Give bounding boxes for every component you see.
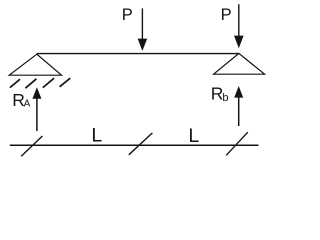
- dimension base line: [10, 144, 259, 146]
- beam: [37, 53, 239, 55]
- dimension slash right: [226, 132, 248, 155]
- dimension slash left: [21, 136, 42, 156]
- svg-text:b: b: [222, 92, 228, 104]
- hatch dash 4 under support A: [60, 78, 71, 87]
- load arrow P1 (midspan): [138, 8, 148, 51]
- svg-text:A: A: [24, 99, 31, 110]
- svg-text:P: P: [122, 6, 133, 24]
- svg-text:L: L: [91, 125, 102, 147]
- hatch dash 3 under support A: [43, 78, 54, 87]
- right support triangle (B): [214, 53, 265, 74]
- svg-text:P: P: [221, 6, 232, 24]
- svg-text:L: L: [188, 125, 199, 147]
- hatch dash 2 under support A: [25, 79, 36, 88]
- left support triangle (pin A): [9, 54, 61, 75]
- label RA: [12, 90, 30, 110]
- reaction arrow Rb: [234, 86, 243, 126]
- hatch dash 1 under support A: [10, 79, 20, 87]
- label Rb: [211, 84, 229, 105]
- dimension slash middle: [129, 133, 153, 155]
- load arrow P2 (over support B): [234, 4, 244, 48]
- reaction arrow RA: [32, 87, 41, 131]
